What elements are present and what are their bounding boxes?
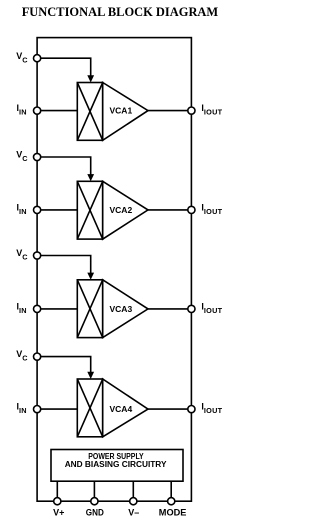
wire GND stub — [93, 481, 95, 501]
op-amp triangle VCA2 — [103, 181, 148, 239]
multiplier cell (X box) of VCA2 — [77, 181, 102, 239]
wire VC3 control — [37, 256, 91, 274]
terminal VC4 — [34, 353, 41, 360]
svg-text:V+: V+ — [53, 508, 64, 518]
terminal VC2 — [34, 153, 41, 160]
svg-text:FUNCTIONAL BLOCK DIAGRAM: FUNCTIONAL BLOCK DIAGRAM — [22, 5, 219, 19]
power supply and biasing circuitry block — [51, 450, 183, 482]
wire IIN2 input — [37, 209, 77, 211]
terminal VC1 — [34, 55, 41, 62]
svg-text:VCA4: VCA4 — [110, 404, 133, 414]
svg-text:VCA3: VCA3 — [110, 304, 133, 314]
wire MODE stub — [170, 481, 172, 501]
multiplier cell (X box) of VCA3 — [77, 280, 102, 338]
terminal V+ — [54, 498, 61, 505]
terminal IIN3 — [34, 305, 41, 312]
svg-text:VCA1: VCA1 — [110, 106, 133, 116]
svg-text:AND BIASING CIRCUITRY: AND BIASING CIRCUITRY — [65, 459, 167, 469]
wire IIN1 input — [37, 110, 77, 112]
wire IIN3 input — [37, 308, 77, 310]
op-amp triangle VCA3 — [103, 280, 148, 338]
terminal IOUT4 — [188, 406, 195, 413]
wire VC1 control — [37, 58, 91, 76]
terminal GND — [91, 498, 98, 505]
wire IOUT3 output — [148, 308, 191, 310]
wire VC4 control — [37, 357, 91, 373]
wire IIN4 input — [37, 408, 77, 410]
arrowhead into multiplier 3 — [87, 273, 94, 280]
op-amp triangle VCA1 — [103, 83, 148, 141]
wire V– stub — [132, 481, 134, 501]
arrowhead into multiplier 2 — [87, 174, 94, 181]
wire IOUT2 output — [148, 209, 191, 211]
terminal MODE — [168, 498, 175, 505]
terminal V– — [130, 498, 137, 505]
terminal IOUT2 — [188, 206, 195, 213]
svg-text:GND: GND — [86, 508, 104, 518]
svg-text:V–: V– — [128, 508, 139, 518]
chip outline — [37, 38, 191, 502]
terminal VC3 — [34, 252, 41, 259]
terminal IOUT1 — [188, 107, 195, 114]
wire IOUT1 output — [148, 110, 191, 112]
terminal IOUT3 — [188, 305, 195, 312]
terminal IIN1 — [34, 107, 41, 114]
op-amp triangle VCA4 — [103, 379, 148, 437]
wire V+ stub — [56, 481, 58, 501]
terminal IIN2 — [34, 206, 41, 213]
svg-text:MODE: MODE — [159, 508, 187, 518]
arrowhead into multiplier 1 — [87, 75, 94, 82]
wire IOUT4 output — [148, 408, 191, 410]
svg-text:VCA2: VCA2 — [110, 205, 133, 215]
multiplier cell (X box) of VCA1 — [77, 83, 102, 141]
multiplier cell (X box) of VCA4 — [77, 379, 102, 437]
terminal IIN4 — [34, 406, 41, 413]
wire VC2 control — [37, 157, 91, 175]
arrowhead into multiplier 4 — [87, 372, 94, 379]
